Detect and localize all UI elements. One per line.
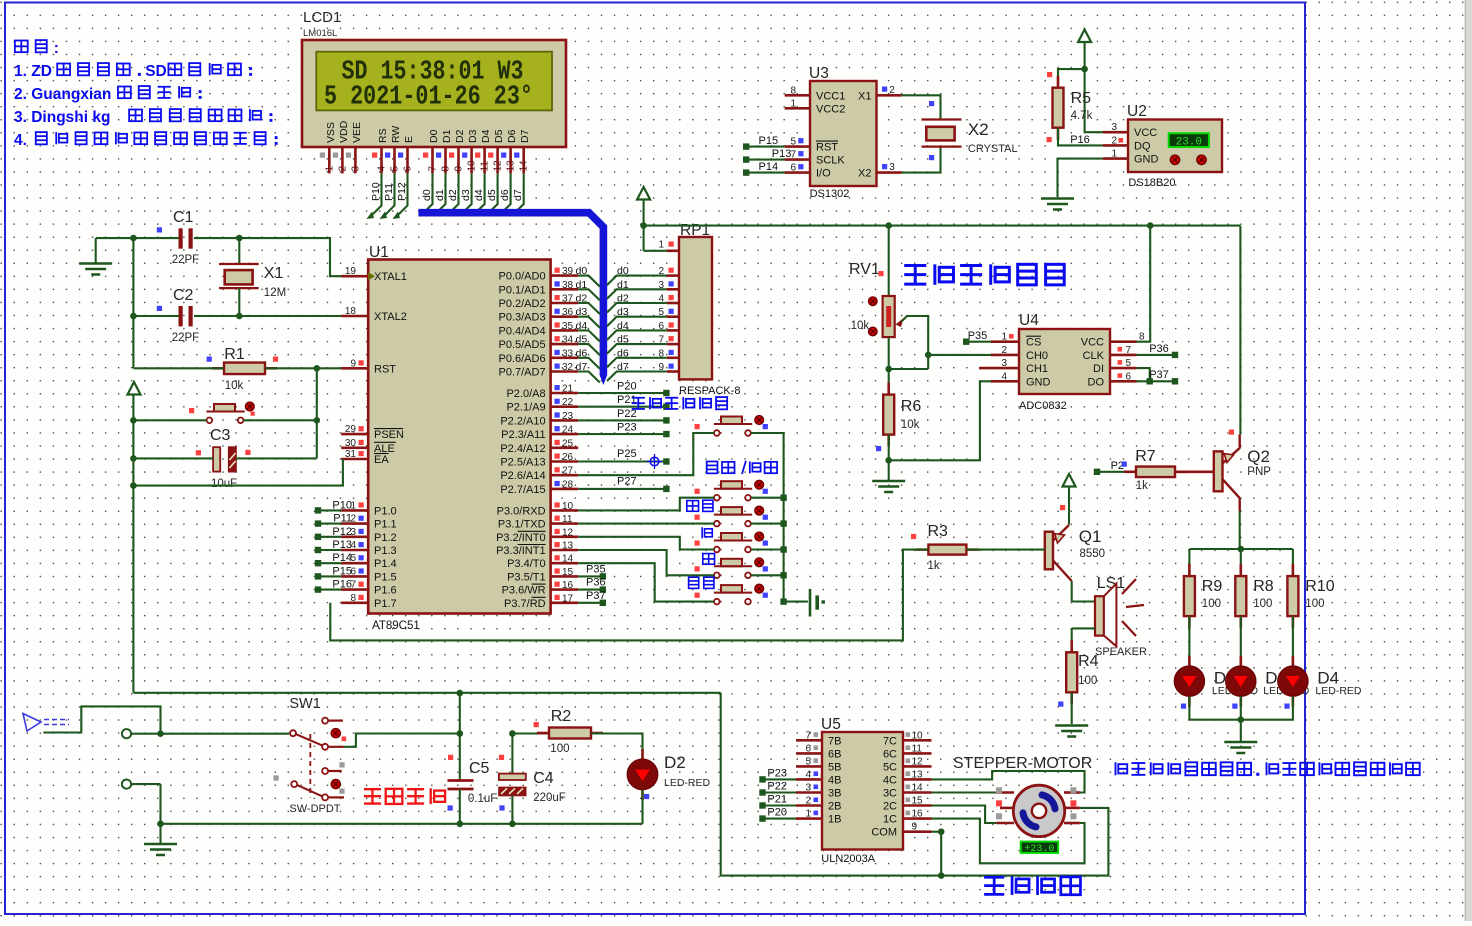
svg-text:P12: P12 [332, 526, 352, 538]
svg-text:P15: P15 [759, 135, 779, 147]
svg-text:P21: P21 [767, 794, 787, 806]
svg-text:10k: 10k [851, 320, 870, 332]
svg-text:P1.1: P1.1 [374, 519, 397, 531]
svg-text:P1.5: P1.5 [374, 571, 397, 583]
svg-text:P0.3/AD3: P0.3/AD3 [499, 312, 546, 324]
resistor R8 100 [1235, 549, 1273, 668]
svg-text:P2.6/A14: P2.6/A14 [500, 470, 545, 482]
svg-text:100: 100 [1078, 675, 1097, 687]
svg-text:8: 8 [441, 166, 452, 172]
svg-text:P15: P15 [332, 565, 352, 577]
svg-text:P3.4/T0: P3.4/T0 [507, 558, 546, 570]
wire speaker to R4 [1072, 628, 1095, 651]
wire U1 P3.2 to minus button [578, 537, 714, 550]
svg-text:d2: d2 [447, 189, 459, 201]
svg-text:7: 7 [428, 166, 439, 172]
svg-text:P1.3: P1.3 [374, 545, 397, 557]
svg-text:P20: P20 [767, 807, 787, 819]
svg-text:P0.0/AD0: P0.0/AD0 [499, 271, 546, 283]
wire Q1 collector to speaker [1072, 581, 1095, 602]
svg-text:P0.4/AD4: P0.4/AD4 [499, 325, 546, 337]
svg-text:R4: R4 [1078, 653, 1099, 670]
wire VCC rail [640, 222, 1240, 229]
LED D1 LED-RED [1226, 656, 1256, 709]
svg-text:GND: GND [1026, 376, 1051, 388]
svg-text:P1.2: P1.2 [374, 532, 397, 544]
svg-text:1: 1 [1111, 149, 1117, 160]
svg-text:10: 10 [912, 730, 924, 741]
capacitor C4 220uF [499, 730, 566, 827]
svg-text:VCC: VCC [1134, 127, 1157, 139]
svg-text:D1: D1 [441, 129, 453, 143]
svg-text:37: 37 [562, 294, 574, 305]
LCD display LCD1 LM016L [302, 9, 566, 173]
svg-text:1: 1 [324, 166, 335, 172]
svg-text:35: 35 [562, 321, 574, 332]
svg-text:3: 3 [1001, 358, 1007, 369]
svg-text:27: 27 [562, 466, 574, 477]
wire R2 to D2 [591, 734, 643, 760]
svg-text:3: 3 [805, 783, 811, 794]
svg-text:P35: P35 [968, 330, 988, 342]
svg-text:7: 7 [1125, 345, 1131, 356]
svg-text:P20: P20 [617, 381, 637, 393]
svg-text:P21: P21 [617, 394, 637, 406]
note text block [14, 40, 278, 149]
svg-text:d4: d4 [576, 320, 588, 332]
svg-text:6: 6 [790, 163, 796, 174]
svg-text:11: 11 [912, 743, 923, 754]
button SW auto/manual (自动/手动) [695, 461, 778, 501]
wire U5 3C to motor [932, 791, 997, 793]
svg-text:14: 14 [912, 783, 924, 794]
resistor R6 10k [876, 383, 921, 461]
svg-text:RST: RST [374, 363, 396, 375]
capacitor C5 0.1uF [448, 734, 498, 824]
svg-text:3: 3 [889, 162, 895, 173]
svg-text:R3: R3 [928, 523, 949, 540]
svg-text:23.0: 23.0 [1176, 136, 1202, 148]
wire reset button row [130, 417, 320, 424]
transistor Q2 PNP [1214, 430, 1271, 512]
svg-text:1k: 1k [1136, 480, 1148, 492]
wire U1 P3.4 to set button [578, 563, 714, 601]
svg-text:DQ: DQ [1134, 140, 1151, 152]
svg-text:3: 3 [658, 280, 664, 291]
ground near C1 [79, 238, 112, 274]
svg-text:2. Guangxian: 2. Guangxian [14, 86, 111, 103]
button SW reset [189, 402, 255, 423]
svg-text::: : [54, 40, 59, 57]
svg-text:d2: d2 [576, 293, 588, 305]
crystal X2 CRYSTAL [922, 120, 1018, 156]
svg-text:10: 10 [467, 160, 478, 172]
wire C3 row [130, 455, 317, 462]
svg-text:1B: 1B [828, 814, 841, 826]
svg-text:d0: d0 [421, 189, 433, 201]
svg-text:AT89C51: AT89C51 [372, 620, 420, 632]
svg-text:VCC1: VCC1 [816, 90, 845, 102]
svg-text:8: 8 [350, 593, 356, 604]
wire input jog to terminal [43, 706, 160, 733]
svg-text:ULN2003A: ULN2003A [821, 853, 875, 865]
svg-text:39: 39 [562, 266, 574, 277]
svg-text:22PF: 22PF [172, 254, 200, 266]
svg-text:1: 1 [790, 98, 796, 109]
svg-text:4: 4 [805, 769, 811, 780]
svg-text:9: 9 [912, 822, 918, 833]
svg-text:VDD: VDD [338, 120, 350, 143]
RTC U3 DS1302 [785, 65, 902, 200]
wire EA net [130, 459, 343, 489]
capacitor C2 22PF [157, 287, 199, 344]
svg-text:15: 15 [912, 796, 924, 807]
svg-text:28: 28 [562, 479, 574, 490]
wire LCD D0-D7 to bus [421, 173, 524, 212]
svg-text:P14: P14 [332, 552, 352, 564]
svg-text:D4: D4 [480, 129, 492, 143]
power arrow VCC left [128, 382, 141, 693]
svg-text:SPEAKER: SPEAKER [1095, 646, 1147, 658]
wire U3 RST/SCLK/IO to P15/P13/P14 terminals [743, 135, 791, 176]
window edge strip [1465, 0, 1472, 921]
svg-text:1C: 1C [883, 814, 897, 826]
svg-text:R9: R9 [1202, 578, 1223, 595]
svg-text:SW1: SW1 [289, 696, 320, 712]
svg-text:30: 30 [345, 438, 357, 449]
svg-text:D6: D6 [506, 129, 518, 143]
svg-text:P37: P37 [1149, 369, 1169, 381]
svg-text:P11: P11 [333, 513, 352, 525]
svg-text:P2.3/A11: P2.3/A11 [501, 429, 545, 441]
ground below LEDs [1224, 742, 1257, 753]
svg-text:Q1: Q1 [1079, 527, 1102, 546]
wire U1 P2.6 to smoke button [578, 433, 714, 475]
power arrow VCC near Q1 [1060, 474, 1076, 525]
svg-text:d3: d3 [576, 306, 588, 318]
svg-text:24: 24 [562, 425, 574, 436]
wire U5 COM to ground net [721, 693, 1109, 879]
label STEPPER-MOTOR [953, 755, 1092, 772]
svg-text:D3: D3 [467, 129, 479, 143]
capacitor C3 10uF [196, 427, 251, 490]
svg-text:d5: d5 [576, 334, 588, 346]
power arrow VCC near RP1 [637, 187, 667, 251]
svg-text:LM016L: LM016L [303, 28, 337, 39]
wire button common rail [751, 433, 808, 605]
resistor R4 100 [1058, 640, 1098, 724]
svg-text:C2: C2 [173, 287, 194, 304]
svg-text:6: 6 [805, 743, 811, 754]
wire U5 2C to motor [932, 806, 997, 824]
resistor R1 10k [207, 346, 279, 392]
svg-text:23: 23 [562, 411, 574, 422]
svg-text:d1: d1 [617, 279, 629, 291]
svg-text:R8: R8 [1253, 578, 1274, 595]
svg-text:2: 2 [658, 266, 664, 277]
svg-text:5: 5 [390, 166, 401, 172]
svg-text:VEE: VEE [351, 122, 363, 143]
svg-text:P10: P10 [370, 182, 382, 201]
svg-text:P23: P23 [767, 767, 787, 779]
wire LCD RS/RW/E to P10/P11/P12 [367, 173, 409, 219]
label power module (电源模块) [364, 788, 445, 804]
LED D2 LED-RED [627, 749, 710, 800]
svg-text:P36: P36 [1149, 343, 1169, 355]
svg-text:d5: d5 [486, 189, 498, 201]
svg-text:d6: d6 [576, 347, 588, 359]
svg-text:CRYSTAL: CRYSTAL [968, 143, 1018, 155]
svg-text:P3.1/TXD: P3.1/TXD [498, 519, 546, 531]
LED labels D3 D1 D4 [1212, 669, 1362, 698]
svg-text:16: 16 [562, 580, 574, 591]
svg-text:P3.3/INT1: P3.3/INT1 [496, 545, 546, 557]
svg-text:P2.2/A10: P2.2/A10 [500, 415, 545, 427]
stepper motor [996, 785, 1080, 836]
resistor R7 1k [1124, 448, 1187, 492]
wire left vertical VCC branch [132, 238, 134, 368]
svg-text:R6: R6 [901, 398, 922, 415]
svg-text:P1.6: P1.6 [374, 585, 397, 597]
driver U5 ULN2003A [796, 716, 932, 865]
svg-text:P1.0: P1.0 [374, 505, 397, 517]
svg-text:R7: R7 [1135, 448, 1156, 465]
svg-text:DS18B20: DS18B20 [1128, 177, 1175, 189]
svg-text:8550: 8550 [1080, 548, 1106, 560]
svg-text:P0.6/AD6: P0.6/AD6 [499, 353, 546, 365]
svg-text:100: 100 [1202, 598, 1221, 610]
svg-text:d1: d1 [576, 279, 588, 291]
svg-text:d3: d3 [617, 306, 629, 318]
svg-text:U2: U2 [1127, 103, 1147, 120]
button SW minus (减) [695, 527, 768, 552]
label light threshold note (当光线小于预设值，灯光和窗帘自动打开) [1115, 762, 1419, 776]
svg-text:3: 3 [1111, 122, 1117, 133]
svg-text:6B: 6B [828, 748, 841, 760]
button SW return (返回) [687, 500, 768, 526]
svg-text:GND: GND [1134, 154, 1159, 166]
svg-text:26: 26 [562, 452, 574, 463]
svg-text:11: 11 [562, 514, 573, 525]
wire U2 VCC [1085, 131, 1103, 133]
svg-text:P27: P27 [617, 475, 637, 487]
svg-text:1k: 1k [928, 560, 940, 572]
svg-text:5 2021-01-26 23°: 5 2021-01-26 23° [324, 83, 533, 113]
svg-text:D2: D2 [664, 753, 686, 772]
svg-text:4: 4 [658, 294, 664, 305]
switch SW1 SW-DPDT [274, 696, 347, 815]
wire R7 to Q2 base [1175, 470, 1214, 473]
wire U4 DI/DO to P37 terminal [1137, 368, 1179, 384]
svg-text:6: 6 [658, 321, 664, 332]
svg-text:P3.2/INT0: P3.2/INT0 [496, 532, 546, 544]
svg-text:P25: P25 [617, 448, 637, 460]
wire Q2 emitter to rail [1239, 226, 1241, 435]
svg-text:SCLK: SCLK [816, 155, 845, 167]
svg-text:1: 1 [658, 240, 664, 251]
svg-text:VCC: VCC [1081, 337, 1104, 349]
svg-text:2: 2 [1111, 135, 1117, 146]
svg-text:P3.7/RD: P3.7/RD [504, 598, 546, 610]
svg-text:2: 2 [889, 85, 895, 96]
svg-text:P0.2/AD2: P0.2/AD2 [499, 298, 546, 310]
svg-text:1: 1 [805, 809, 811, 820]
svg-text:9: 9 [350, 358, 356, 369]
svg-text:32: 32 [562, 362, 574, 373]
svg-text:4.: 4. [14, 132, 27, 149]
svg-text:E: E [403, 136, 415, 143]
svg-text:Q2: Q2 [1247, 447, 1270, 466]
svg-text:RW: RW [390, 126, 402, 143]
svg-text:9: 9 [454, 166, 465, 172]
wire LED top rail [1189, 548, 1293, 550]
svg-text:12M: 12M [264, 287, 286, 299]
wire RV1 wiper to U4 CH0 [928, 354, 991, 356]
svg-text:d7: d7 [576, 361, 588, 373]
svg-text:220uF: 220uF [533, 792, 566, 804]
ground bottom-left [144, 824, 177, 855]
LED D4 LED-RED [1278, 656, 1308, 709]
svg-text:2: 2 [805, 796, 811, 807]
svg-text:7: 7 [805, 730, 811, 741]
svg-text:P0.1/AD1: P0.1/AD1 [499, 284, 546, 296]
button SW smoke (按下模拟烟雾) [632, 397, 768, 436]
svg-text:6: 6 [403, 166, 414, 172]
capacitor C1 22PF [157, 209, 199, 266]
svg-text:CLK: CLK [1083, 350, 1105, 362]
transistor Q1 8550 [1045, 525, 1105, 581]
ground below R4 [1055, 726, 1088, 737]
label simulated curtain (模拟窗帘) [984, 876, 1080, 895]
svg-text:10uF: 10uF [211, 478, 237, 490]
svg-text:P36: P36 [586, 577, 606, 589]
svg-text:22: 22 [562, 397, 574, 408]
svg-text:1: 1 [1001, 332, 1007, 343]
svg-text:12: 12 [493, 160, 504, 172]
svg-text:RESPACK-8: RESPACK-8 [679, 385, 741, 397]
wire U1 P2.0-P2.3 to P20-P23 terminals [578, 381, 669, 438]
svg-text:CH0: CH0 [1026, 350, 1048, 362]
svg-text:9: 9 [658, 362, 664, 373]
wire U1 P2.5 to P25 terminal [578, 448, 669, 469]
svg-text:CH1: CH1 [1026, 363, 1048, 375]
wire U4 CLK to P36 terminal [1137, 343, 1179, 358]
svg-text:P13: P13 [332, 539, 352, 551]
ground near U2 [1041, 199, 1074, 210]
svg-text:LED-RED: LED-RED [664, 777, 711, 789]
power arrow VCC near R5 [1078, 30, 1091, 133]
svg-text:19: 19 [345, 266, 357, 277]
svg-text:4B: 4B [828, 774, 841, 786]
wire U5 4C loop over motor [932, 771, 1085, 793]
svg-text:XTAL2: XTAL2 [374, 311, 407, 323]
svg-text:d4: d4 [617, 320, 629, 332]
battery cell [810, 589, 825, 617]
resistor R2 100 [512, 708, 603, 755]
wire R6 bottom node to U4 GND [885, 381, 991, 463]
svg-text:25: 25 [562, 438, 574, 449]
svg-text:LCD1: LCD1 [303, 9, 341, 26]
svg-text:X1: X1 [264, 265, 284, 282]
wire U4 CS to P35 terminal [963, 330, 991, 345]
svg-text:10: 10 [562, 501, 574, 512]
wire XTAL net top [96, 235, 342, 276]
resistor R9 100 [1184, 549, 1222, 668]
svg-text:5: 5 [805, 756, 811, 767]
resistor R10 100 [1287, 549, 1334, 668]
label analog light intensity (模拟光线强度) [904, 264, 1064, 285]
svg-text:U3: U3 [809, 65, 829, 82]
svg-text:SD: SD [145, 63, 167, 80]
svg-text:U4: U4 [1019, 312, 1039, 329]
svg-text:31: 31 [345, 449, 357, 460]
svg-text:D0: D0 [428, 129, 440, 143]
speaker LS1 SPEAKER [1095, 575, 1147, 658]
svg-text:d4: d4 [473, 189, 485, 201]
svg-text:1. ZD: 1. ZD [14, 63, 52, 80]
svg-text:DO: DO [1088, 376, 1105, 388]
svg-text:R5: R5 [1071, 90, 1092, 107]
svg-text:P10: P10 [332, 499, 352, 511]
svg-text:7: 7 [658, 335, 664, 346]
svg-text:5B: 5B [828, 761, 841, 773]
svg-text:22PF: 22PF [172, 332, 200, 344]
svg-text:14: 14 [519, 160, 530, 172]
svg-text:VSS: VSS [325, 122, 337, 143]
wire U5 inputs to P20-P23 terminals [759, 767, 796, 821]
svg-text:EA: EA [374, 454, 389, 466]
svg-text:12: 12 [562, 527, 574, 538]
svg-text:3: 3 [350, 166, 361, 172]
svg-text:P2.0/A8: P2.0/A8 [506, 388, 545, 400]
resistor R5 4.7k [1047, 69, 1104, 146]
svg-text:RS: RS [377, 128, 389, 143]
svg-text:P12: P12 [396, 182, 408, 201]
svg-text:0.1uF: 0.1uF [468, 793, 497, 805]
svg-text:STEPPER-MOTOR: STEPPER-MOTOR [953, 755, 1092, 772]
wire R3 to Q1 base [967, 549, 1045, 551]
svg-text:P13: P13 [772, 148, 792, 160]
svg-text:12: 12 [912, 756, 924, 767]
button SW set (设置) [689, 577, 768, 604]
svg-text:29: 29 [345, 424, 357, 435]
svg-text:P0.5/AD5: P0.5/AD5 [499, 339, 546, 351]
svg-text:d0: d0 [576, 265, 588, 277]
svg-text:14: 14 [562, 554, 574, 565]
wire U1 P0 bus taps d0-d7 [576, 265, 600, 382]
svg-text:DI: DI [1093, 363, 1104, 375]
svg-text:8: 8 [790, 85, 796, 96]
svg-text:P2.7/A15: P2.7/A15 [500, 484, 545, 496]
svg-text:R2: R2 [551, 708, 572, 725]
ground below R6 [872, 460, 905, 492]
svg-text:2: 2 [337, 166, 348, 172]
svg-text:CS: CS [1026, 337, 1041, 349]
svg-text:P16: P16 [332, 579, 352, 591]
svg-text:5: 5 [658, 307, 664, 318]
svg-text:P35: P35 [586, 563, 606, 575]
wire RST net [133, 365, 341, 458]
svg-text:P3.0/RXD: P3.0/RXD [497, 505, 546, 517]
wire lower input to ground rail [157, 784, 164, 827]
svg-text:R1: R1 [224, 346, 245, 363]
ADC U4 ADC0832 [979, 312, 1145, 412]
svg-text:P0.7/AD7: P0.7/AD7 [499, 367, 546, 379]
svg-text:P22: P22 [767, 781, 787, 793]
svg-text:d0: d0 [617, 265, 629, 277]
wire U2 GND to ground [1058, 159, 1104, 197]
svg-text:P16: P16 [1070, 134, 1090, 146]
